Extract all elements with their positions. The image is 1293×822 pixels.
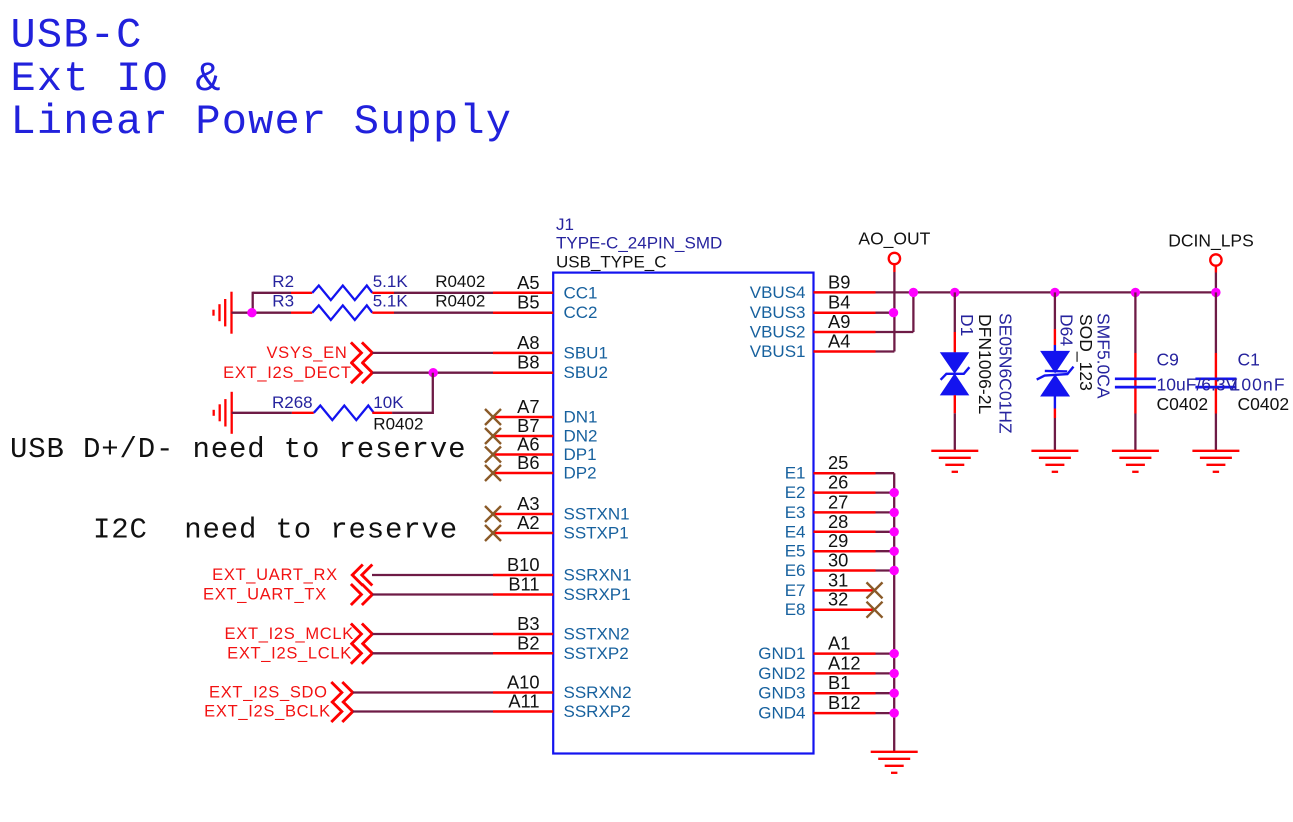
svg-text:J1: J1 [556, 215, 574, 234]
svg-text:A12: A12 [828, 652, 861, 673]
svg-text:DN2: DN2 [564, 427, 598, 446]
svg-text:B6: B6 [517, 452, 539, 473]
svg-text:VBUS1: VBUS1 [750, 342, 806, 361]
svg-text:A5: A5 [517, 272, 539, 293]
svg-text:SOD_123: SOD_123 [1075, 314, 1096, 391]
svg-text:USB_TYPE_C: USB_TYPE_C [556, 253, 667, 272]
svg-text:USB-C: USB-C [11, 12, 143, 60]
svg-text:B8: B8 [517, 352, 539, 373]
svg-text:E6: E6 [785, 561, 806, 580]
svg-text:5.1K: 5.1K [373, 292, 409, 311]
svg-text:10K: 10K [373, 393, 404, 412]
svg-text:B11: B11 [508, 574, 539, 595]
svg-text:A1: A1 [828, 633, 850, 654]
svg-text:D1: D1 [957, 314, 977, 336]
svg-text:SSRXN1: SSRXN1 [564, 566, 632, 585]
svg-text:C9: C9 [1157, 350, 1179, 370]
svg-text:EXT_I2S_MCLK: EXT_I2S_MCLK [225, 625, 354, 643]
svg-text:A9: A9 [828, 311, 850, 332]
svg-text:GND2: GND2 [758, 664, 805, 683]
svg-text:DFN1006-2L: DFN1006-2L [975, 314, 995, 414]
svg-text:DN1: DN1 [564, 408, 598, 427]
svg-text:B1: B1 [828, 672, 850, 693]
svg-text:SSTXP2: SSTXP2 [564, 644, 629, 663]
svg-text:DP2: DP2 [564, 464, 597, 483]
svg-text:SBU2: SBU2 [564, 363, 608, 382]
svg-text:E3: E3 [785, 503, 806, 522]
svg-text:EXT_I2S_LCLK: EXT_I2S_LCLK [227, 645, 352, 663]
svg-text:EXT_I2S_SDO: EXT_I2S_SDO [209, 684, 328, 702]
svg-text:EXT_UART_RX: EXT_UART_RX [212, 566, 338, 584]
svg-text:D64: D64 [1057, 314, 1077, 346]
svg-text:A7: A7 [517, 396, 539, 417]
svg-text:A4: A4 [828, 331, 850, 352]
svg-text:SMF5.0CA: SMF5.0CA [1094, 313, 1114, 399]
svg-text:EXT_I2S_BCLK: EXT_I2S_BCLK [204, 703, 331, 721]
svg-text:31: 31 [828, 569, 848, 590]
svg-text:SSTXN1: SSTXN1 [564, 505, 630, 524]
svg-text:A8: A8 [517, 332, 539, 353]
svg-text:A2: A2 [517, 512, 539, 533]
svg-text:A10: A10 [507, 672, 540, 693]
svg-text:TYPE-C_24PIN_SMD: TYPE-C_24PIN_SMD [556, 234, 722, 253]
svg-text:E4: E4 [785, 522, 806, 541]
svg-text:E5: E5 [785, 542, 806, 561]
svg-text:B4: B4 [828, 292, 850, 313]
svg-text:E7: E7 [785, 581, 806, 600]
svg-text:I2C need to reserve: I2C need to reserve [93, 513, 458, 546]
svg-text:C1: C1 [1238, 350, 1260, 370]
svg-text:SBU1: SBU1 [564, 343, 608, 362]
svg-text:30: 30 [828, 550, 848, 571]
svg-text:C0402: C0402 [1157, 394, 1209, 414]
svg-text:5.1K: 5.1K [373, 272, 409, 291]
svg-text:USB D+/D- need to reserve: USB D+/D- need to reserve [10, 433, 466, 466]
svg-text:SSTXN2: SSTXN2 [564, 625, 630, 644]
svg-text:27: 27 [828, 491, 848, 512]
svg-text:VSYS_EN: VSYS_EN [266, 344, 347, 362]
svg-text:VBUS2: VBUS2 [750, 323, 806, 342]
svg-text:EXT_I2S_DECT: EXT_I2S_DECT [223, 364, 352, 382]
svg-text:CC2: CC2 [564, 303, 598, 322]
svg-text:R2: R2 [272, 272, 294, 291]
svg-text:Ext IO &: Ext IO & [11, 55, 222, 103]
svg-text:E1: E1 [785, 464, 806, 483]
svg-text:R3: R3 [272, 292, 294, 311]
svg-text:GND1: GND1 [758, 644, 805, 663]
svg-text:A3: A3 [517, 493, 539, 514]
svg-text:SSRXN2: SSRXN2 [564, 683, 632, 702]
svg-text:B2: B2 [517, 632, 539, 653]
svg-text:DCIN_LPS: DCIN_LPS [1168, 231, 1254, 252]
svg-text:C0402: C0402 [1238, 394, 1290, 414]
svg-text:32: 32 [828, 589, 848, 610]
svg-text:R0402: R0402 [435, 272, 485, 291]
svg-text:E8: E8 [785, 600, 806, 619]
svg-text:28: 28 [828, 511, 848, 532]
svg-text:VBUS3: VBUS3 [750, 303, 806, 322]
svg-text:25: 25 [828, 452, 848, 473]
svg-text:GND4: GND4 [758, 704, 805, 723]
svg-text:CC1: CC1 [564, 283, 598, 302]
svg-text:26: 26 [828, 472, 848, 493]
svg-text:SE05N6C01HZ: SE05N6C01HZ [996, 313, 1016, 434]
svg-text:B9: B9 [828, 271, 850, 292]
svg-text:EXT_UART_TX: EXT_UART_TX [203, 586, 327, 604]
svg-text:R268: R268 [272, 393, 313, 412]
svg-text:SSRXP1: SSRXP1 [564, 585, 631, 604]
svg-text:DP1: DP1 [564, 445, 597, 464]
svg-text:Linear Power Supply: Linear Power Supply [11, 98, 513, 146]
svg-text:E2: E2 [785, 483, 806, 502]
svg-text:B5: B5 [517, 292, 539, 313]
svg-text:R0402: R0402 [435, 292, 485, 311]
svg-text:29: 29 [828, 530, 848, 551]
svg-text:R0402: R0402 [373, 415, 423, 434]
svg-text:SSTXP1: SSTXP1 [564, 524, 629, 543]
svg-text:A11: A11 [508, 691, 539, 712]
svg-text:SSRXP2: SSRXP2 [564, 702, 631, 721]
svg-text:VBUS4: VBUS4 [750, 283, 806, 302]
svg-text:B3: B3 [517, 613, 539, 634]
svg-text:B10: B10 [507, 554, 540, 575]
svg-text:AO_OUT: AO_OUT [858, 229, 930, 250]
svg-text:100nF: 100nF [1231, 374, 1286, 394]
svg-text:GND3: GND3 [758, 684, 805, 703]
svg-text:B12: B12 [828, 692, 861, 713]
svg-text:10uF/6.3V: 10uF/6.3V [1157, 374, 1238, 394]
